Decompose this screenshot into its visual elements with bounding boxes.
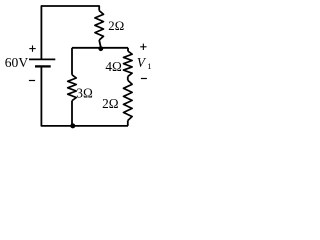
wire: 2ohm bottom lead to node A bbox=[99, 40, 101, 47]
resistor R4 2Ω (right lower) bbox=[124, 80, 133, 120]
wire: middle branch top lead bbox=[71, 48, 73, 75]
V1 plus sign bbox=[140, 44, 146, 50]
resistor R3 4Ω (right upper) bbox=[124, 51, 133, 76]
V1 minus sign bbox=[141, 78, 147, 80]
node B junction dot (bottom) bbox=[70, 123, 75, 128]
wire: right branch bottom lead bbox=[127, 121, 129, 126]
svg-text:4Ω: 4Ω bbox=[105, 59, 122, 74]
battery minus sign bbox=[29, 80, 35, 82]
resistor R1 2Ω (top) bbox=[95, 11, 104, 40]
wire: middle branch bottom lead bbox=[71, 101, 73, 126]
svg-text:2Ω: 2Ω bbox=[108, 19, 124, 33]
svg-text:2Ω: 2Ω bbox=[102, 96, 119, 111]
svg-text:60V: 60V bbox=[5, 55, 29, 70]
svg-text:V: V bbox=[137, 55, 147, 70]
voltage source 60V battery short plate bbox=[35, 65, 51, 67]
wire top: from source positive up and across to 2ohm resistor bbox=[41, 6, 99, 59]
wire: between 4ohm and 2ohm bbox=[127, 76, 129, 80]
resistor R2 3Ω (middle) bbox=[68, 75, 77, 101]
wire bottom: from source negative across the bottom bbox=[41, 66, 128, 126]
wire: node row horizontal bbox=[72, 47, 128, 49]
voltage source 60V battery long plate bbox=[29, 58, 55, 60]
battery plus sign bbox=[29, 45, 35, 51]
wire: right branch top lead bbox=[127, 48, 129, 51]
node A junction dot bbox=[98, 46, 103, 51]
svg-text:1: 1 bbox=[147, 61, 151, 71]
svg-text:3Ω: 3Ω bbox=[76, 85, 93, 100]
